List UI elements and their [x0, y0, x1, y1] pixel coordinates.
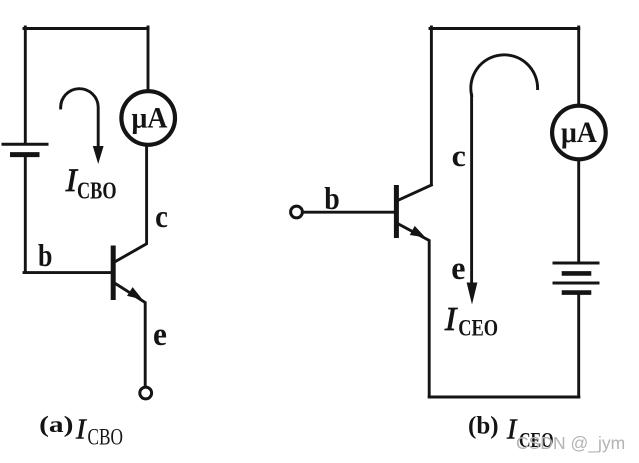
battery V1 long plate: [3, 143, 47, 146]
svg-text:(b): (b): [468, 413, 499, 440]
wire top of circuit (b): [430, 27, 579, 30]
terminal e open circle (a): [140, 387, 152, 399]
battery V2 long plate 1: [554, 262, 598, 265]
transistor Q1 emitter arrowhead: [127, 287, 143, 299]
terminal b open circle (b): [291, 206, 303, 218]
svg-text:b: b: [324, 181, 339, 216]
transistor Q1 base bar: [111, 248, 116, 298]
svg-text:μA: μA: [132, 102, 168, 135]
battery V2 short plate 1: [564, 271, 589, 276]
current arrow I_CEO head: [467, 283, 478, 305]
wire base lead of Q1: [24, 271, 110, 274]
microammeter M2: [552, 106, 606, 160]
microammeter M1: [121, 91, 175, 145]
svg-text:e: e: [451, 250, 465, 286]
battery V2 long plate 2: [554, 282, 598, 285]
wire left branch upper of circuit (a): [24, 27, 27, 143]
svg-text:b: b: [38, 239, 52, 274]
svg-text:CSDN @_jym: CSDN @_jym: [516, 433, 625, 454]
svg-text:CBO: CBO: [88, 425, 123, 450]
transistor Q2 emitter lead: [399, 224, 430, 396]
wire top of circuit (a): [24, 27, 148, 30]
transistor Q2 emitter arrowhead: [410, 226, 426, 238]
transistor Q1 emitter lead: [115, 283, 146, 386]
current arrow I_CBO hook: [61, 89, 99, 148]
wire left branch of circuit (b): [430, 27, 433, 185]
current arrow I_CEO hook: [471, 55, 538, 96]
wire right branch upper of circuit (b): [577, 27, 580, 105]
current arrow I_CBO head: [93, 146, 104, 164]
svg-text:I: I: [444, 301, 458, 338]
battery V2 short plate 2: [564, 290, 589, 295]
transistor Q2 base bar: [394, 188, 399, 236]
transistor Q2 collector lead: [399, 185, 431, 200]
wire battery to bottom (b): [577, 294, 580, 397]
svg-text:CBO: CBO: [77, 177, 116, 204]
battery V1 short plate: [13, 152, 38, 157]
svg-text:c: c: [155, 199, 168, 234]
wire meter top lead (a): [147, 27, 150, 91]
current arrow I_CEO shaft: [470, 95, 473, 283]
svg-text:e: e: [153, 315, 167, 352]
wire bottom of circuit (b): [429, 396, 579, 399]
svg-text:(a): (a): [39, 411, 73, 437]
svg-text:c: c: [452, 138, 466, 172]
svg-text:I: I: [75, 414, 87, 446]
transistor Q1 collector lead: [115, 147, 147, 263]
svg-text:CEO: CEO: [458, 315, 498, 342]
wire meter to battery (b): [577, 160, 580, 262]
wire base lead of Q2: [304, 211, 395, 214]
wire left branch lower of circuit (a): [24, 156, 27, 272]
svg-text:μA: μA: [561, 116, 597, 149]
